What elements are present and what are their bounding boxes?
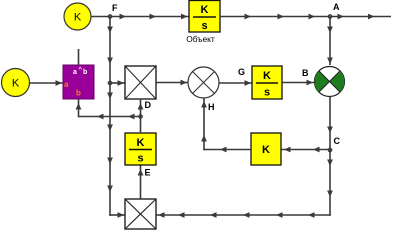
- wire: node C left to gain block K1g: [281, 147, 330, 153]
- wire: U3 output left then up to M1 bottom input, node H: [201, 98, 251, 152]
- svg-text:B: B: [302, 68, 309, 78]
- wire: top line from K source to object block, with node F: [91, 14, 189, 20]
- svg-text:K: K: [263, 70, 271, 82]
- svg-text:K: K: [12, 78, 20, 90]
- block U1 "Объект" K/s integrator: [186, 1, 220, 45]
- svg-text:K: K: [201, 4, 209, 16]
- wire: bottom feedback line right-to-left into divider box X2: [156, 212, 331, 218]
- svg-text:A: A: [333, 2, 340, 12]
- wire: node C down to bottom feedback line: [327, 150, 333, 216]
- svg-text:E: E: [145, 168, 151, 178]
- svg-text:a: a: [64, 80, 69, 89]
- svg-text:K: K: [137, 137, 145, 149]
- node junction on left vertical feeding multiplier box: [108, 81, 112, 85]
- block N1 power a^b (purple nonlinear block): [63, 65, 94, 99]
- wire: X2 output up to block U4, node E: [138, 165, 151, 199]
- svg-text:^: ^: [79, 67, 83, 73]
- svg-text:b: b: [83, 69, 87, 76]
- wire: comparator output down to node C: [327, 97, 333, 151]
- wire: K2 source to power block input a: [30, 80, 63, 86]
- svg-text:F: F: [112, 3, 118, 13]
- wire: power block output stub (top): [78, 49, 80, 65]
- wire: left vertical feedback from node F down to bottom multiplier: [107, 17, 125, 218]
- comparator circle S1 (green X circle): [315, 67, 345, 97]
- svg-text:s: s: [137, 153, 143, 165]
- wire: node D up into X1 bottom input: [138, 99, 144, 117]
- source circle K1 (top left): [64, 3, 91, 30]
- svg-text:K: K: [262, 144, 270, 156]
- svg-text:H: H: [208, 102, 215, 112]
- svg-text:a: a: [73, 69, 77, 76]
- svg-text:K: K: [74, 12, 82, 24]
- wire: U2 output to comparator left input, node B: [282, 68, 314, 85]
- svg-text:s: s: [201, 20, 207, 32]
- block U4 K/s integrator: [125, 133, 156, 165]
- wire: node A down to comparator top input: [327, 17, 333, 66]
- wire: M1 output to block U2, node G: [219, 67, 252, 86]
- block U2 K/s integrator: [252, 66, 282, 99]
- node C junction: [328, 136, 341, 152]
- multiplier box X1 (upper crossed square): [125, 66, 156, 99]
- wire: object block to node A and right edge: [220, 14, 391, 20]
- block U3 gain K: [251, 133, 281, 165]
- svg-text:s: s: [264, 87, 270, 99]
- svg-text:b: b: [76, 89, 81, 98]
- svg-text:D: D: [145, 100, 152, 110]
- multiplier circle M1 (circle with X): [188, 67, 219, 98]
- node D junction: [138, 100, 151, 119]
- node A junction: [328, 2, 340, 19]
- source circle K2 (left): [2, 69, 30, 97]
- node F junction: [108, 3, 118, 19]
- wire: junction to multiplier box X1 left input: [110, 80, 125, 86]
- svg-text:Объект: Объект: [186, 34, 215, 44]
- svg-text:C: C: [334, 136, 341, 146]
- wire: multiplier box X1 output to product circle M1: [156, 80, 188, 86]
- divider box X2 (bottom crossed square): [125, 199, 156, 229]
- wire: node D left then up into power block input b: [76, 99, 141, 119]
- svg-text:G: G: [238, 67, 245, 77]
- wire: U4 output up to node D: [140, 117, 142, 134]
